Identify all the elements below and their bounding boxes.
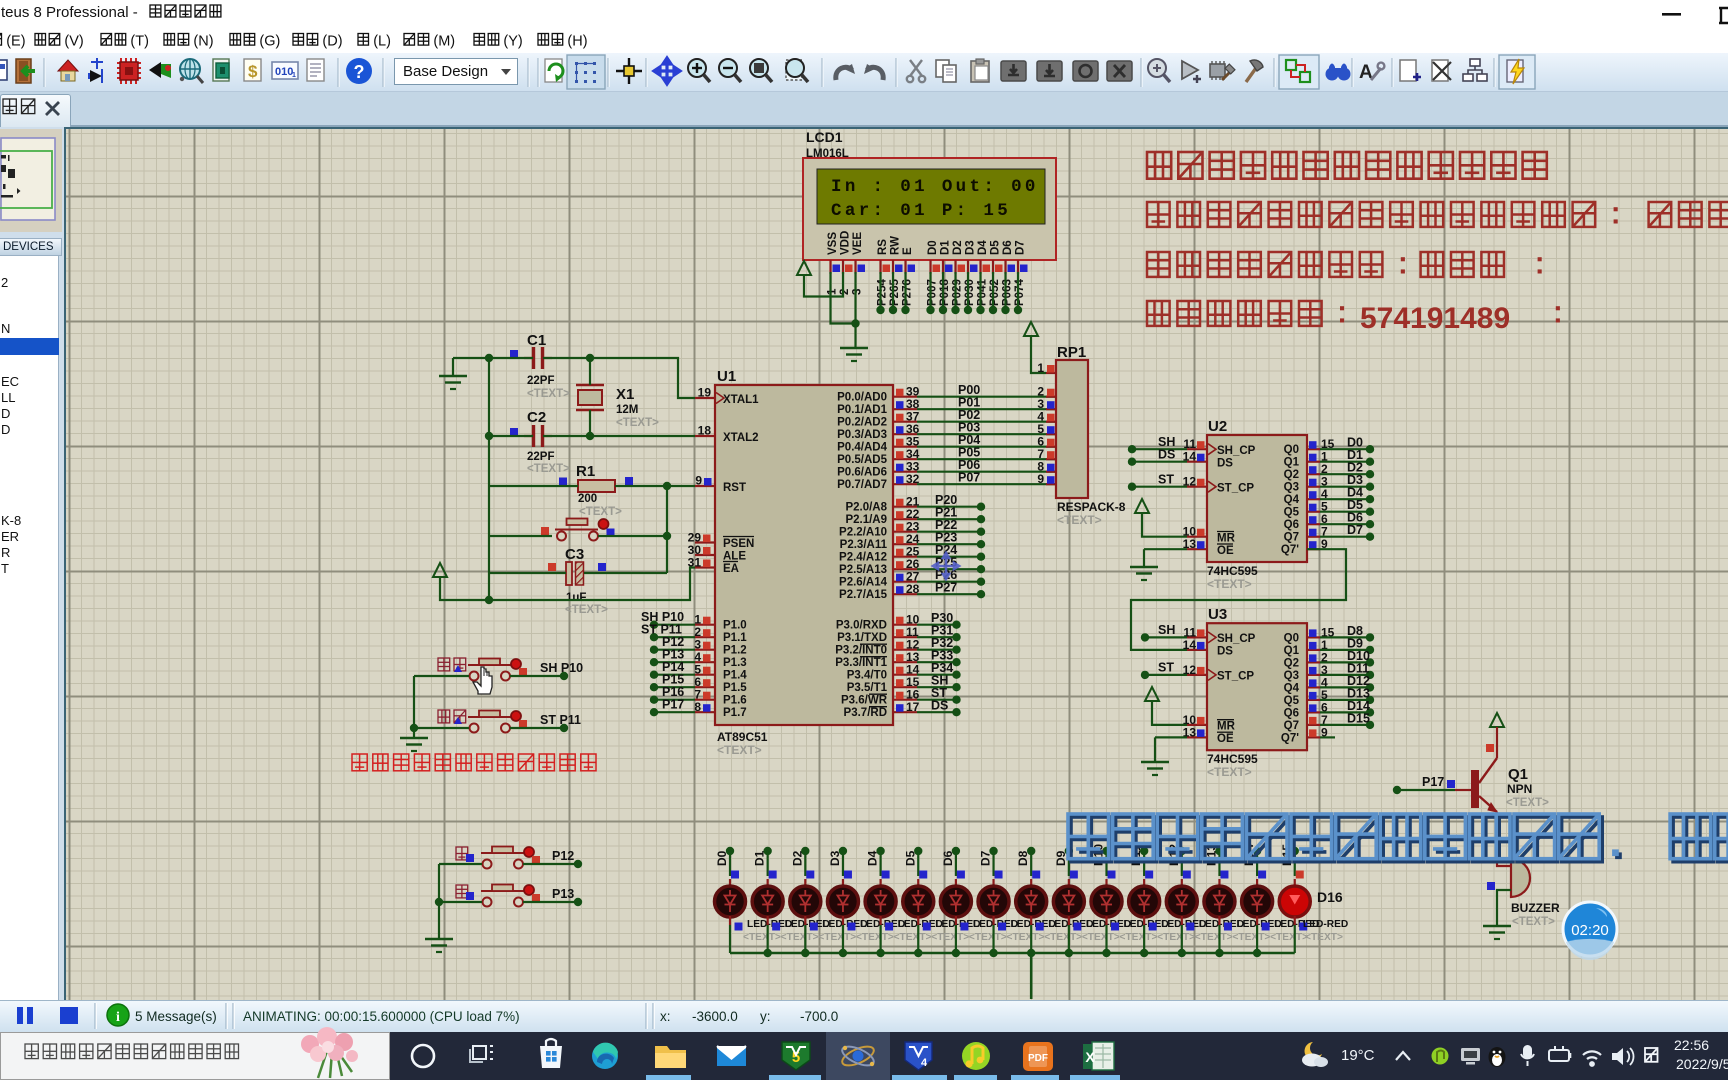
node C2 junction: [485, 432, 594, 440]
LED D1: [715, 879, 746, 925]
wire LED 6 bottom: [955, 925, 957, 953]
wire U2 OE to ground: [1144, 549, 1187, 567]
video danmaku shadow: [1071, 817, 1728, 862]
wire U3 MR: [1152, 701, 1187, 725]
node LED 4 top: [876, 847, 884, 855]
wire VDD to power: [804, 272, 843, 297]
wire SH to U3: [1141, 623, 1187, 642]
U1 port0 pin names: [837, 392, 887, 492]
LED 6 value label: [973, 919, 1018, 930]
wire LED 15 top: [1294, 851, 1296, 876]
net label D12: [1167, 844, 1181, 866]
LED D15: [1242, 879, 1273, 925]
button enter (SH): [468, 659, 527, 681]
wire buzzer to ground: [1487, 882, 1511, 925]
button minus label: [456, 885, 474, 900]
node LED 14 top: [1253, 847, 1261, 855]
wire LED 14 top: [1256, 851, 1258, 876]
LED 2 state square bottom: [810, 923, 818, 931]
wire C3 row: [489, 572, 667, 574]
buzzer labels: [1511, 901, 1560, 928]
LED 3 text label: [856, 932, 894, 943]
power arrow U3 MR: [1145, 687, 1159, 701]
wire LED 11 top: [1143, 851, 1145, 876]
LED 3 state square bottom: [847, 923, 855, 931]
node LED 1 top: [763, 847, 771, 855]
LED 7 state square bottom: [998, 923, 1006, 931]
LCD pin names and stubs: [827, 231, 1028, 274]
net label D3: [828, 850, 842, 866]
U2 pin names: [1217, 444, 1300, 557]
wire DS to U2: [1128, 448, 1187, 466]
LED 0 text label: [743, 932, 781, 943]
U3 value labels: [1207, 752, 1258, 779]
pan cursor near P26: [933, 553, 959, 579]
wire LED 6 top: [955, 851, 957, 876]
ground below LCD: [840, 348, 868, 361]
wire LED 8 top: [1030, 851, 1032, 876]
LED 1 state square bottom: [772, 923, 780, 931]
U1 port1 pin names: [723, 620, 747, 720]
wire LED bus drop: [1030, 953, 1033, 999]
LED 7 state square top: [995, 871, 1003, 879]
U3 right pins and data wires: [1307, 624, 1374, 740]
LED 6 text label: [969, 932, 1007, 943]
LED 14 state square top: [1258, 871, 1266, 879]
LED 9 text label: [1082, 932, 1120, 943]
LED 9 state square bottom: [1073, 923, 1081, 931]
wire LED 3 bottom: [842, 925, 844, 953]
wire LED 1 top: [767, 851, 769, 876]
U1 port2 pins and wires: [893, 493, 985, 598]
wire ground to C1: [453, 357, 533, 359]
node LED 6 top: [952, 847, 960, 855]
button exit label: [438, 710, 466, 724]
video danmaku text: [1068, 814, 1728, 859]
microcontroller U1 label: [717, 368, 736, 385]
LED 10 value label: [1124, 919, 1169, 930]
wire button exit: [414, 724, 568, 732]
LCD text line 2: [831, 201, 1011, 221]
node LED 7 top: [989, 847, 997, 855]
red annotation title line 3: [1147, 252, 1542, 277]
wire reset button row: [489, 535, 667, 537]
LED 8 value label: [1048, 919, 1093, 930]
LED 14 text label: [1270, 932, 1308, 943]
node LED 8 top: [1027, 847, 1035, 855]
LED 11 value label: [1161, 919, 1206, 930]
U1 port3 pin names: [835, 620, 887, 720]
LED 4 value label: [898, 919, 943, 930]
net label D7: [979, 850, 993, 866]
LED 4 text label: [894, 932, 932, 943]
LED D11: [1091, 879, 1122, 925]
wire LED 0 top: [729, 851, 731, 876]
LCD data pin wires with net labels: [876, 272, 1026, 314]
LED D12: [1129, 879, 1160, 925]
video player timer: [1563, 902, 1617, 960]
wire plus minus ground column: [435, 864, 443, 938]
node bottom junction: [485, 596, 493, 604]
LED 13 text label: [1232, 932, 1270, 943]
wire EA route: [440, 568, 695, 601]
RP1 value labels: [1057, 500, 1126, 527]
LED 10 state square top: [1108, 871, 1116, 879]
node reset junction: [663, 532, 671, 540]
node LED 15 top: [1291, 847, 1299, 855]
net label ST P11: [540, 713, 581, 727]
node LED 12 top: [1178, 847, 1186, 855]
LED 8 state square top: [1032, 871, 1040, 879]
wire LED 7 bottom: [992, 925, 994, 953]
shift register U3 label: [1208, 606, 1227, 623]
wire C2 row: [489, 435, 590, 437]
U1 port1 net labels: [641, 610, 684, 712]
node LED 9 top: [1065, 847, 1073, 855]
LED 0 value label: [747, 919, 792, 930]
LED D16 text label: [1305, 932, 1343, 943]
net label D1: [753, 850, 767, 866]
LED 5 value label: [935, 919, 980, 930]
LED D10: [1053, 879, 1084, 925]
red annotation switch signal: [352, 754, 596, 771]
node crystal top junction: [586, 354, 594, 362]
wire LED 9 top: [1068, 851, 1070, 876]
wire LED 4 top: [879, 851, 881, 876]
reset button: [541, 519, 615, 541]
LED 9 state square top: [1070, 871, 1078, 879]
wire C1 to XTAL1 node: [543, 357, 590, 359]
U2 value labels: [1207, 564, 1258, 591]
LCD display LCD1 body: [803, 158, 1056, 260]
LED 6 state square bottom: [960, 923, 968, 931]
net label D8: [1016, 850, 1030, 866]
capacitor C1: [510, 347, 552, 369]
LED 13 state square bottom: [1224, 923, 1232, 931]
LED 11 state square bottom: [1149, 923, 1157, 931]
LED D3: [790, 879, 821, 925]
LED 7 text label: [1007, 932, 1045, 943]
node LED 10 top: [1102, 847, 1110, 855]
LED D13: [1166, 879, 1197, 925]
node LED 2 top: [801, 847, 809, 855]
power arrow Q1 collector: [1490, 713, 1504, 727]
U1 port0 pins and wires to RP1: [893, 383, 1056, 486]
wire LED 9 bottom: [1068, 925, 1070, 953]
LED D14: [1204, 879, 1235, 925]
U1 port1 wires: [650, 621, 695, 717]
wire LED bus: [730, 952, 1295, 955]
wire LED 13 bottom: [1218, 925, 1220, 953]
U1 port2 pin names: [839, 502, 888, 602]
LED 13 value label: [1236, 919, 1281, 930]
LED 12 value label: [1199, 919, 1244, 930]
LED 3 value label: [860, 919, 905, 930]
net label D6: [941, 850, 955, 866]
LED 14 value label: [1274, 919, 1319, 930]
LED 4 state square top: [882, 871, 890, 879]
ground buttons: [400, 738, 428, 751]
U1 port3 pins and wires: [893, 611, 961, 716]
resistor pack RP1 label: [1057, 344, 1086, 361]
node LED 11 top: [1140, 847, 1148, 855]
wire U2 MR: [1142, 513, 1187, 537]
shift register U2 body: [1207, 435, 1307, 562]
LED D4: [827, 879, 858, 925]
net label D5: [903, 850, 917, 866]
wire LED 5 top: [917, 851, 919, 876]
wire LED 14 bottom: [1256, 925, 1258, 953]
net label D13: [1204, 844, 1218, 866]
wire button enter: [414, 672, 568, 680]
U3 pin names: [1217, 632, 1300, 745]
net label D4: [866, 850, 880, 866]
LED 9 value label: [1086, 919, 1131, 930]
net label SH P10: [540, 661, 583, 675]
buzzer BUZ1: [1511, 859, 1530, 897]
U1 left pin names: [723, 394, 759, 575]
wire LED 0 bottom: [729, 925, 731, 953]
wire LED 15 bottom: [1294, 925, 1296, 953]
LCD pin 1 2 3 numbers: [827, 288, 864, 295]
net label D9: [1054, 850, 1068, 866]
wire XTAL2 route: [590, 435, 695, 437]
node RST junction: [663, 482, 671, 490]
LED D2: [752, 879, 783, 925]
red annotation title line 4: [1147, 301, 1560, 335]
U2 left pins: [1183, 437, 1207, 551]
net label D15: [1280, 844, 1294, 866]
red annotation title line 1: [1147, 152, 1547, 179]
LED D16: [1279, 879, 1310, 925]
wire U3 OE to ground: [1155, 737, 1187, 762]
wire Q1 collector: [1486, 727, 1497, 758]
LED bus junctions: [763, 949, 1261, 957]
LED 6 state square top: [957, 871, 965, 879]
wire LED 10 bottom: [1105, 925, 1107, 953]
node LED 13 top: [1215, 847, 1223, 855]
LED 14 state square bottom: [1262, 923, 1270, 931]
LED 0 state square bottom: [735, 923, 743, 931]
wire LED 2 bottom: [804, 925, 806, 953]
LED D7: [940, 879, 971, 925]
LED 10 state square bottom: [1111, 923, 1119, 931]
LED 3 state square top: [844, 871, 852, 879]
ground U3 OE: [1141, 762, 1169, 775]
LCD display LCD1 labels: [806, 129, 849, 173]
power arrow bottom left: [433, 563, 447, 577]
wire LED 8 bottom: [1030, 925, 1032, 953]
shift register U2 label: [1208, 418, 1227, 435]
U3 clock marks: [1208, 632, 1216, 681]
U1 left pins: [688, 386, 724, 570]
LED 5 state square top: [919, 871, 927, 879]
wire LED 3 top: [842, 851, 844, 876]
wire R1 row: [489, 485, 695, 487]
shift register U3 body: [1207, 623, 1307, 750]
wire LED 10 top: [1105, 851, 1107, 876]
net label D14: [1242, 844, 1256, 866]
wire button minus: [439, 898, 582, 906]
LED 0 state square top: [731, 871, 739, 879]
wire LED 1 bottom: [767, 925, 769, 953]
capacitor C1 labels: [527, 332, 570, 400]
node LED 0 top: [726, 847, 734, 855]
wire LED 12 bottom: [1181, 925, 1183, 953]
wire LED 2 top: [804, 851, 806, 876]
LED 2 value label: [822, 919, 867, 930]
LED 5 text label: [931, 932, 969, 943]
capacitor C3 labels: [565, 546, 608, 616]
net label P17: [1422, 775, 1455, 789]
button enter label: [438, 658, 466, 672]
wire U2 Q7 cascade to U3 DS: [1131, 549, 1346, 650]
capacitor C3: [548, 562, 606, 585]
LED 5 state square bottom: [923, 923, 931, 931]
resistor R1 labels: [576, 463, 622, 518]
net label P12: [552, 849, 574, 863]
crystal X1: [576, 385, 604, 410]
wire U3 Q7prime stub: [1320, 736, 1335, 738]
wire left column: [488, 358, 490, 600]
LCD text line 1: [831, 177, 1039, 197]
node LED 5 top: [914, 847, 922, 855]
LED 1 value label: [785, 919, 830, 930]
mouse cursor: [473, 667, 492, 694]
resistor pack RP1 body: [1056, 360, 1088, 498]
U2 right pins and data wires: [1307, 436, 1374, 552]
crystal X1 labels: [616, 386, 659, 429]
Q1 labels: [1506, 766, 1549, 809]
button minus (P13): [481, 885, 540, 907]
button plus (P12): [481, 847, 540, 869]
wire VSS VEE to ground: [831, 272, 860, 347]
net label D0: [715, 850, 729, 866]
power arrow U2 MR: [1135, 499, 1149, 513]
net label P13: [552, 887, 574, 901]
wire RST vertical: [666, 486, 668, 573]
transistor Q1: [1471, 758, 1497, 812]
node LED 3 top: [839, 847, 847, 855]
LED 11 state square top: [1145, 871, 1153, 879]
LED 7 value label: [1011, 919, 1056, 930]
LED 8 text label: [1044, 932, 1082, 943]
LED D8: [978, 879, 1009, 925]
wire ST to U3: [1141, 661, 1187, 680]
net label D2: [790, 850, 804, 866]
ground buzzer: [1483, 926, 1511, 939]
net label D11: [1129, 844, 1143, 866]
resistor R1: [559, 477, 633, 492]
LED 1 state square top: [769, 871, 777, 879]
wire P17 to Q1 base: [1393, 786, 1471, 794]
wire LED 12 top: [1181, 851, 1183, 876]
U3 left pins: [1183, 625, 1207, 739]
LED 15 state square top: [1296, 871, 1304, 879]
LED D6: [903, 879, 934, 925]
red annotation title line 2: [1147, 202, 1728, 227]
wire crystal stems: [589, 358, 591, 436]
LED 12 text label: [1195, 932, 1233, 943]
U1 port1 pins: [694, 613, 715, 715]
LED 8 state square bottom: [1036, 923, 1044, 931]
microcontroller U1 body: [715, 385, 893, 725]
LED 10 text label: [1120, 932, 1158, 943]
wire LED 4 bottom: [879, 925, 881, 953]
LED D16 value label: [1303, 919, 1348, 930]
node C1 left junction: [485, 354, 493, 362]
U1 value labels: [717, 730, 768, 757]
wire buttons ground column: [410, 676, 418, 737]
LED 12 state square bottom: [1186, 923, 1194, 931]
LED 4 state square bottom: [885, 923, 893, 931]
LED 13 state square top: [1220, 871, 1228, 879]
wire SH to U2: [1128, 435, 1187, 453]
button plus label: [456, 847, 474, 862]
LED 2 text label: [818, 932, 856, 943]
capacitor C2 labels: [527, 409, 570, 475]
ground top left: [439, 358, 467, 389]
RP1 pins: [1037, 361, 1056, 486]
LED D5: [865, 879, 896, 925]
power arrow for RP1: [1024, 322, 1038, 336]
LED D16 ref label: [1317, 889, 1343, 905]
wire Q1 emitter to buzzer: [1497, 812, 1511, 866]
wire LED 13 top: [1218, 851, 1220, 876]
wire LED 5 bottom: [917, 925, 919, 953]
button exit (ST): [468, 711, 527, 733]
wire button plus: [439, 860, 582, 868]
LED 2 state square top: [806, 871, 814, 879]
wire RP1 pin1: [1031, 336, 1046, 373]
LED 1 text label: [781, 932, 819, 943]
wire LED 11 bottom: [1143, 925, 1145, 953]
LED D9: [1016, 879, 1047, 925]
LED 12 state square top: [1183, 871, 1191, 879]
wire LED 7 top: [992, 851, 994, 876]
wire ST to U2: [1128, 473, 1187, 491]
U2 clock marks: [1208, 444, 1216, 493]
wire XTAL1 route: [590, 358, 695, 398]
ground U2 OE: [1130, 567, 1158, 580]
net label D10: [1092, 844, 1106, 866]
LED 11 text label: [1157, 932, 1195, 943]
LED 15 state square bottom: [1299, 923, 1307, 931]
capacitor C2: [510, 425, 552, 447]
power arrow for LCD VDD: [797, 261, 811, 275]
ground plus minus: [425, 939, 453, 952]
